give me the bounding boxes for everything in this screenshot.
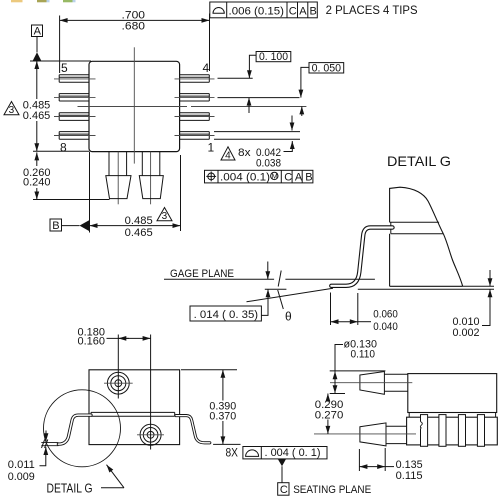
svg-text:4: 4 <box>203 61 210 75</box>
basic dimension 0.050 <box>301 62 344 116</box>
dimension 0.485/0.465 (bottom horizontal) <box>90 152 181 239</box>
upper foot centerline <box>330 382 412 384</box>
dimension 0.010/0.002 <box>453 270 491 339</box>
svg-text:GAGE PLANE: GAGE PLANE <box>170 268 234 280</box>
pin 7 (left row 3) <box>59 113 89 121</box>
svg-text:DETAIL G: DETAIL G <box>47 481 93 496</box>
svg-text:M: M <box>272 172 278 181</box>
svg-text:. 004 ( 0. 1): . 004 ( 0. 1) <box>265 447 321 459</box>
svg-text:0.240: 0.240 <box>23 177 51 189</box>
decorative strips top-left <box>11 0 76 2</box>
seating line right of side view <box>213 443 240 445</box>
horizontal centerline <box>78 106 188 108</box>
gage plane line <box>164 278 274 280</box>
lead (detail G) <box>331 228 392 286</box>
gage plane arrow <box>267 262 269 280</box>
pin number labels <box>60 61 215 155</box>
body top extension <box>181 369 237 371</box>
end view upper body <box>408 374 497 413</box>
svg-text:0.115: 0.115 <box>396 470 423 482</box>
feet centerlines <box>117 152 119 205</box>
svg-text:B: B <box>52 220 59 232</box>
svg-text:0.040: 0.040 <box>373 321 398 333</box>
svg-text:0.060: 0.060 <box>373 308 398 320</box>
left pin centerlines <box>54 79 96 136</box>
rib 1 break squiggle <box>420 422 423 429</box>
upper foot cone <box>360 372 385 395</box>
svg-text:3: 3 <box>162 211 168 222</box>
right foot trapezoid <box>139 176 163 199</box>
svg-text:C: C <box>280 484 288 496</box>
svg-text:A: A <box>295 171 303 183</box>
svg-text:B: B <box>310 5 317 17</box>
svg-text:C: C <box>289 5 297 17</box>
svg-text:3: 3 <box>9 105 15 116</box>
svg-text:0.485: 0.485 <box>125 215 153 227</box>
note triangle 4 + lead width dim 8x 0.042/0.038 <box>221 116 292 170</box>
seating plane line (detail) <box>358 288 494 290</box>
svg-text:4: 4 <box>225 151 231 162</box>
svg-text:8: 8 <box>60 141 67 155</box>
dimension 0.485/0.465 (left vertical) <box>23 61 51 151</box>
svg-text:C: C <box>284 171 292 183</box>
upper boss circles <box>104 372 133 394</box>
package top edge extension to datum A <box>30 60 91 62</box>
note triangle 3 (left) <box>4 102 19 117</box>
dim .014 (0.35) boxed <box>190 289 268 321</box>
step between body and rib band <box>409 413 495 418</box>
svg-text:0. 100: 0. 100 <box>259 51 288 63</box>
pin 1 (right row 4) <box>180 132 210 140</box>
svg-text:5: 5 <box>61 61 68 75</box>
svg-text:8x: 8x <box>238 147 251 159</box>
svg-text:A: A <box>34 26 42 38</box>
upper foot neck <box>384 374 407 391</box>
left lead thin foot extension <box>41 443 58 446</box>
svg-text:0.002: 0.002 <box>453 327 480 339</box>
left lead (magnified by detail circle) <box>58 415 91 444</box>
svg-text:.680: .680 <box>122 20 146 32</box>
package lid (detail) <box>390 187 444 234</box>
lower foot centerline <box>314 433 416 435</box>
bottom feet lead edges (top view) <box>109 152 160 176</box>
profile feature control frame (top) <box>210 2 317 18</box>
pin 2 (right row 3) <box>180 113 210 121</box>
svg-text:B: B <box>305 171 312 183</box>
DETAIL G label (bottom) with leader arrow <box>47 465 125 496</box>
datum A symbol <box>32 25 43 61</box>
svg-text:0. 050: 0. 050 <box>312 62 342 74</box>
bottom FCF 8X flatness <box>226 447 328 460</box>
svg-text:0.011: 0.011 <box>8 459 35 471</box>
svg-text:.006 (0.15): .006 (0.15) <box>229 5 285 17</box>
right pin centerlines <box>175 79 215 136</box>
svg-text:1: 1 <box>208 141 215 155</box>
pin 6 (left row 2) <box>59 94 89 101</box>
svg-text:. 014 ( 0. 35): . 014 ( 0. 35) <box>194 309 259 321</box>
dimension dia 0.130/0.110 <box>330 338 386 393</box>
pin 3 (right row 2) <box>180 94 210 101</box>
basic dimension 0.100 <box>249 51 291 113</box>
package body U1 outline <box>89 61 180 151</box>
note triangle 3 (bottom) <box>157 208 172 223</box>
left foot trapezoid <box>106 176 131 199</box>
datum B symbol <box>50 219 90 232</box>
dimension 0.135/0.115 <box>359 448 422 482</box>
dimension 0.180/0.160 <box>78 326 151 347</box>
lower foot neck <box>386 426 407 443</box>
detail circle G <box>44 390 121 467</box>
lid/base seam band <box>91 412 175 416</box>
dimension 0.390/0.370 <box>209 370 236 445</box>
svg-text:0.465: 0.465 <box>23 110 51 122</box>
gage break slashes (left) <box>42 439 48 448</box>
svg-text:0.110: 0.110 <box>351 349 376 361</box>
pin 8 (left row 4) <box>59 132 89 140</box>
pin 4 (right row 1) <box>180 75 210 83</box>
dimension .700/.680 <box>60 9 210 73</box>
vertical centerline <box>133 47 135 163</box>
right lead (side view) <box>176 416 210 443</box>
dimension 0.060/0.040 <box>331 293 398 334</box>
svg-text:0.009: 0.009 <box>8 471 35 483</box>
lower foot cone <box>360 423 386 446</box>
svg-text:θ: θ <box>285 310 292 324</box>
svg-text:0.160: 0.160 <box>78 336 106 348</box>
svg-text:SEATING PLANE: SEATING PLANE <box>293 484 371 496</box>
rib band <box>407 417 498 445</box>
lower boss circles <box>137 424 164 445</box>
pin row extension lines (right) <box>218 77 253 79</box>
lead thickness ref dash <box>265 288 287 290</box>
svg-text:.004 (0.1): .004 (0.1) <box>220 171 270 183</box>
package base (detail) <box>390 234 463 287</box>
seating plane slant <box>247 288 334 302</box>
svg-text:0.270: 0.270 <box>315 410 344 422</box>
svg-text:8X: 8X <box>226 447 239 459</box>
svg-text:0.038: 0.038 <box>256 157 281 169</box>
seal band (detail) <box>391 222 444 234</box>
pin 5 (left row 1) <box>59 75 89 83</box>
position feature control frame <box>205 170 313 183</box>
ribs (4 white slots) <box>421 415 485 447</box>
svg-text:0.370: 0.370 <box>209 411 236 423</box>
boss center extension lines <box>117 335 119 399</box>
dimension 0.290/0.270 <box>315 394 344 434</box>
svg-text:2 PLACES 4 TIPS: 2 PLACES 4 TIPS <box>326 5 418 17</box>
svg-text:DETAIL G: DETAIL G <box>387 153 451 169</box>
side view body <box>89 370 180 445</box>
dimension 0.011/0.009 <box>8 431 46 483</box>
dimension 0.260/0.240 <box>23 151 110 199</box>
svg-text:A: A <box>299 5 307 17</box>
theta angle lines <box>278 271 281 287</box>
svg-text:0.465: 0.465 <box>125 227 153 239</box>
seating plane datum C callout <box>278 459 372 496</box>
